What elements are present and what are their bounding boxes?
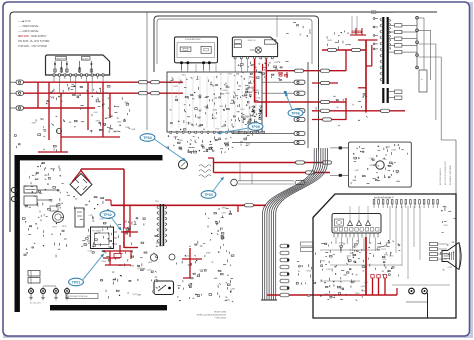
wire FBT to right 2 — [418, 29, 430, 31]
switching transistor Q801 — [179, 160, 188, 169]
svg-text:C860: C860 — [117, 122, 121, 124]
resistor R821 — [296, 161, 305, 164]
IC501 component fill — [214, 93, 215, 94]
relay RL801 — [154, 281, 174, 295]
red jack feed y83 — [312, 82, 338, 84]
IC501 internal grid — [171, 76, 173, 128]
svg-text:L801: L801 — [182, 74, 186, 76]
CRT board left cluster — [305, 282, 307, 284]
CRT funnel — [442, 243, 461, 270]
svg-text:L212: L212 — [186, 255, 190, 257]
svg-text:R127: R127 — [52, 226, 56, 228]
svg-text:FBT TRANSFORMER UNIT: FBT TRANSFORMER UNIT — [372, 11, 395, 14]
red long 12V rail — [255, 101, 346, 103]
ejection label box — [66, 294, 98, 299]
IC401 pin stubs — [338, 147, 349, 149]
red rail lower jack — [312, 119, 346, 121]
FBT terminal bus — [416, 16, 418, 69]
board internal wire 3 — [320, 280, 360, 282]
svg-text:-·-·- VIDEO SIGNAL: -·-·- VIDEO SIGNAL — [18, 25, 39, 28]
resistor R314 — [323, 118, 332, 121]
svg-text:Q693: Q693 — [212, 110, 216, 112]
red gun stub B — [384, 278, 386, 295]
U301 detector symbol Q301 — [255, 47, 261, 53]
svg-text:Q191: Q191 — [77, 95, 81, 97]
cluster left red grid — [43, 129, 46, 131]
U301 pin row — [234, 57, 236, 59]
AC inlet plug — [11, 187, 16, 192]
svg-text:C746: C746 — [87, 251, 91, 253]
VIDEO IN jack J1 — [11, 81, 17, 83]
red branch v1 — [37, 82, 39, 108]
svg-text:D173: D173 — [197, 110, 201, 112]
transistor Q101 — [56, 128, 61, 133]
resistor R107 on audio bus — [139, 92, 148, 95]
svg-text:L376: L376 — [147, 269, 151, 271]
transistor Q805 — [169, 254, 175, 260]
red main smps rail — [111, 204, 266, 206]
wire IC501 to jack A — [262, 81, 294, 83]
RGB amp triangle G — [357, 221, 362, 226]
red trace bridge to B+ cap — [80, 169, 82, 171]
speaker bracket — [427, 293, 429, 318]
svg-text:TVM SUPL : 170V SYSTEM: TVM SUPL : 170V SYSTEM — [18, 46, 47, 48]
red rail end — [396, 288, 398, 295]
svg-text:R364: R364 — [35, 179, 39, 181]
FBT core bar 1 — [382, 17, 384, 84]
IC401 input wires — [330, 147, 338, 149]
jack link wire — [30, 271, 32, 284]
cluster far-left mid — [53, 145, 56, 147]
svg-text:L226: L226 — [382, 259, 386, 261]
SMPS transformer T801 core — [160, 204, 162, 246]
red trace audio-in bus — [24, 92, 184, 94]
connector CN803 — [295, 181, 305, 185]
svg-text:Q807: Q807 — [148, 262, 152, 264]
FBT rectifier ladder — [395, 24, 402, 27]
wire FBT to right 4 — [418, 56, 441, 58]
IC401 internals — [372, 159, 375, 161]
svg-text:C188: C188 — [274, 62, 278, 64]
svg-text:Q469: Q469 — [244, 133, 248, 135]
red bridge positive roof — [72, 171, 90, 183]
resistor R106 on video bus — [151, 81, 160, 84]
front AV connector block J101 outline — [46, 55, 110, 75]
svg-text:R552: R552 — [225, 93, 229, 95]
components below IC501 — [194, 152, 197, 153]
svg-text:MODEL 54NE: MODEL 54NE — [214, 312, 227, 314]
ceramic resonator X301 — [252, 106, 255, 116]
vertical stub b — [251, 173, 253, 185]
board edge connector strip — [280, 244, 289, 248]
svg-text:VIDEO / IF: VIDEO / IF — [248, 40, 256, 42]
transistor Q802 — [231, 179, 238, 186]
svg-text:L929: L929 — [339, 242, 343, 244]
focus divider block — [419, 70, 427, 92]
svg-text:RED SUPL : MAIN SUPPLY: RED SUPL : MAIN SUPPLY — [18, 35, 47, 38]
svg-text:R218: R218 — [307, 270, 311, 272]
FBT output terminals — [416, 16, 419, 19]
svg-text:C409: C409 — [355, 293, 359, 295]
svg-text:C356: C356 — [346, 256, 350, 258]
red trace from U301 pin 6 — [265, 59, 267, 117]
CRT board top pin header — [373, 200, 375, 205]
board right cluster — [442, 231, 444, 233]
IC501 bottom pin row — [170, 131, 172, 133]
resistor R309 on 9V rail — [295, 69, 304, 72]
PSU below-bridge cluster — [86, 204, 88, 206]
isolation bar horizontal (hot/cold barrier) — [17, 155, 163, 160]
CRT board outline — [313, 194, 456, 318]
vertical stub a — [239, 163, 241, 181]
wire AC to bridge — [37, 189, 58, 191]
svg-text:C855: C855 — [244, 116, 248, 118]
PSU primary cluster — [39, 165, 41, 167]
mounting bracket boxes — [28, 271, 40, 277]
svg-text:Q573: Q573 — [352, 247, 356, 249]
IC901 pins — [333, 233, 335, 238]
svg-text:Q978: Q978 — [173, 136, 177, 138]
red standby net h1 — [103, 250, 132, 252]
svg-text:D631: D631 — [174, 86, 178, 88]
red CRT rail horizontal — [267, 294, 397, 296]
red gun stub G — [378, 278, 380, 295]
red CRT vertical main — [365, 237, 367, 295]
T801 windings — [157, 206, 159, 209]
CRT board interior cluster — [337, 286, 340, 288]
vertical deflection block IC401 outline — [349, 142, 412, 187]
U201 left amp cell — [180, 47, 191, 51]
svg-text:BF FOCUS SCREEN WHT: BF FOCUS SCREEN WHT — [445, 160, 447, 185]
speaker mount circles — [409, 288, 415, 294]
U201 output transistors — [180, 61, 183, 64]
svg-text:TP02: TP02 — [103, 213, 112, 217]
test point TP01 callout — [69, 278, 84, 286]
chassis ground jacks — [29, 289, 34, 294]
FBT primary taps — [375, 18, 378, 20]
red horizontal 9V rail — [266, 70, 346, 72]
connector block pin row — [53, 74, 55, 76]
inner schematic frame left edge — [9, 60, 11, 232]
svg-text:Q264: Q264 — [385, 147, 389, 149]
red branch v6 — [109, 93, 111, 118]
red branch v2 — [48, 82, 50, 140]
U201 inner frame — [177, 43, 214, 58]
svg-text:D806: D806 — [156, 242, 160, 244]
resistor R105 on video bus — [139, 81, 148, 84]
svg-text:——▶ P. UK: ——▶ P. UK — [18, 20, 31, 23]
svg-text:D878: D878 — [369, 165, 373, 167]
red standby stub — [183, 277, 190, 279]
main board outline outer — [154, 16, 319, 150]
svg-text:TP05: TP05 — [251, 125, 260, 129]
red bottom run — [38, 151, 68, 153]
svg-text:TYPE CD2N2: TYPE CD2N2 — [214, 318, 226, 320]
red trace audio-R bus — [24, 107, 96, 109]
red short branch — [366, 65, 372, 67]
main board outline inner — [157, 19, 312, 64]
RGB amp triangle R — [348, 221, 353, 226]
svg-text:R449: R449 — [321, 261, 325, 263]
red branch v5 — [102, 82, 104, 137]
transistor Q804 — [150, 254, 157, 261]
cluster left of IC501 — [109, 127, 112, 129]
red B+ rail 115V — [322, 49, 366, 51]
wire to jack y142 — [232, 142, 294, 144]
resistor R315 — [321, 81, 330, 84]
svg-text:C723: C723 — [215, 129, 219, 131]
secondary cluster — [154, 280, 157, 282]
red manifold vertical B — [345, 98, 347, 120]
svg-text:L692: L692 — [251, 77, 255, 79]
red secondary rail 2 — [214, 172, 331, 174]
svg-text:R978: R978 — [222, 207, 226, 209]
component cluster IF area — [247, 87, 248, 88]
CRT drive IC901 outline — [332, 214, 381, 234]
vertical output transistor Q401 — [376, 161, 384, 169]
svg-text:Q466: Q466 — [105, 118, 109, 120]
red component cluster near U301 — [278, 72, 283, 74]
vertical bus wire left of board — [146, 13, 148, 131]
svg-text:Q965: Q965 — [96, 101, 100, 103]
wires IC901 pins down — [335, 238, 337, 245]
red drive rail right — [213, 158, 215, 173]
connector block internal contacts — [54, 61, 56, 73]
svg-text:D302: D302 — [109, 129, 113, 131]
main filter cap C805 — [75, 208, 84, 227]
audio output block U201 outline — [175, 37, 218, 63]
red branch v4 — [87, 82, 89, 130]
red gun stub R — [372, 278, 374, 295]
red branch v130 — [129, 205, 131, 237]
transistor Q803 — [231, 178, 233, 180]
svg-text:D450: D450 — [227, 74, 231, 76]
component cluster below U301 — [263, 69, 265, 71]
red B+ cluster parts — [352, 31, 355, 33]
test point TP02 callout — [100, 211, 115, 219]
svg-text:Q257: Q257 — [364, 282, 368, 284]
red standby vertical — [189, 248, 191, 278]
red manifold vertical A — [345, 50, 347, 71]
board internal wire 4 — [392, 284, 450, 286]
resistor R311 on 12V rail — [321, 100, 330, 103]
U301 tuner cell — [234, 40, 241, 44]
red flyback primary vertical — [365, 40, 367, 113]
cluster above B+ area — [326, 36, 328, 38]
wire to jack y133 — [232, 133, 294, 135]
wire IC501 to jack B — [262, 92, 294, 94]
wire FBT to right 1 — [418, 17, 424, 19]
CRT socket pins — [430, 242, 438, 245]
svg-text:T801: T801 — [155, 201, 159, 203]
SMPS regulator IC801 (STR) — [91, 227, 114, 249]
svg-text:L318: L318 — [383, 159, 387, 161]
resistor R802 B+ — [352, 48, 361, 51]
svg-text:R643: R643 — [327, 40, 331, 42]
driver transformer T802 — [199, 165, 211, 178]
svg-text:D410: D410 — [102, 261, 106, 263]
red stub smps left — [110, 200, 112, 205]
cluster below input jacks — [68, 88, 70, 91]
svg-text:Q402: Q402 — [361, 286, 365, 288]
AV out jack column — [294, 80, 305, 84]
test point TP04 callout — [140, 134, 155, 142]
video IF block U301 outline — [232, 37, 277, 57]
svg-text:L510: L510 — [58, 96, 62, 98]
svg-text:R154: R154 — [62, 226, 66, 228]
inner schematic frame top edge — [10, 12, 437, 60]
red standby net v3 — [130, 251, 132, 259]
wire pair above B+ area — [351, 16, 353, 34]
wire FBT to right 3 — [418, 43, 436, 45]
svg-text:R204: R204 — [246, 143, 250, 145]
U301 delay line cell — [264, 40, 276, 44]
degauss posistor TH801 — [53, 212, 64, 223]
ceramic resonator X302 — [259, 106, 262, 116]
IC901 bottom cells — [334, 228, 337, 232]
svg-text:L502: L502 — [93, 112, 97, 114]
red mid run — [61, 136, 120, 138]
svg-text:D234: D234 — [212, 118, 216, 120]
labels left of jacks — [246, 144, 249, 146]
svg-text:D517: D517 — [240, 109, 244, 111]
svg-text:WRMOL-2023N-D023084-2656CH: WRMOL-2023N-D023084-2656CH — [197, 315, 227, 317]
svg-text:D987: D987 — [32, 122, 36, 124]
CRT harness wire bundle — [263, 148, 315, 300]
svg-text:TP04: TP04 — [143, 136, 152, 140]
svg-text:Q260: Q260 — [389, 256, 393, 258]
resistor R108 on audio bus — [151, 92, 160, 95]
svg-text:D161: D161 — [326, 269, 330, 271]
svg-text:+: + — [421, 77, 423, 81]
svg-text:Q572: Q572 — [132, 294, 136, 296]
connector labels — [301, 242, 314, 246]
line filter L801 — [24, 196, 37, 205]
red standby branch — [182, 258, 202, 260]
svg-text:R764: R764 — [384, 254, 388, 256]
resistor R313 — [381, 109, 390, 112]
resistor R801 B+ — [328, 48, 337, 51]
svg-text:D388: D388 — [130, 265, 134, 267]
svg-text:TP01: TP01 — [72, 280, 81, 284]
svg-text:Q264: Q264 — [159, 246, 163, 248]
board vertical traces — [389, 206, 391, 240]
svg-text:R480: R480 — [114, 131, 118, 133]
FBT core bar 2b — [387, 88, 389, 103]
svg-text:L420: L420 — [250, 87, 254, 89]
AC fuse box F801 — [24, 186, 37, 193]
red rail end stub — [124, 247, 138, 249]
svg-text:Q201: Q201 — [225, 86, 229, 88]
jack panel edge line — [307, 62, 309, 148]
svg-text:AS VIDEO ADB-IN: AS VIDEO ADB-IN — [439, 168, 442, 185]
AUDIO-R IN jack J3 — [11, 107, 17, 109]
red secondary vertical — [237, 205, 239, 212]
svg-text:D549: D549 — [392, 150, 396, 152]
red cluster b1 — [121, 231, 138, 233]
bridge rectifier D801 diamond — [70, 174, 92, 196]
red standby net h3 — [105, 264, 131, 266]
svg-text:(FOR EJECTION) JHG: (FOR EJECTION) JHG — [68, 296, 88, 298]
resistor R822 — [323, 161, 332, 164]
red branch to FBT winding — [358, 39, 378, 41]
RGB amp triangle B — [366, 221, 371, 226]
svg-text:Q986: Q986 — [206, 253, 210, 255]
connector block label box HEADPHONE — [56, 57, 67, 61]
red standby net v2 — [119, 245, 121, 258]
svg-text:L356: L356 — [219, 106, 223, 108]
FBT secondary winding — [389, 19, 391, 21]
red standby net h2 — [103, 257, 120, 259]
svg-text:L148: L148 — [131, 129, 135, 131]
degauss coil connector — [50, 206, 58, 211]
resistor R312 — [321, 109, 330, 112]
svg-text:C155: C155 — [88, 215, 92, 217]
centre low cluster — [208, 218, 210, 219]
svg-text:D672: D672 — [381, 249, 385, 251]
test point TP03 callout — [201, 191, 216, 199]
red secondary rail 1 — [214, 162, 331, 164]
IC901 bias cell — [335, 219, 344, 226]
svg-text:AC 220-240V: AC 220-240V — [30, 302, 42, 305]
cluster top right of U301 — [299, 34, 301, 36]
CRT board mid cluster — [368, 247, 369, 248]
svg-text:L818: L818 — [250, 107, 254, 109]
red B+ primary drop — [123, 169, 125, 248]
isolation bar bottom — [50, 305, 167, 310]
svg-text:L315: L315 — [256, 97, 260, 99]
svg-text:R592: R592 — [50, 168, 54, 170]
svg-text:C634: C634 — [179, 140, 183, 142]
CRT gun grid — [449, 252, 451, 260]
svg-text:C548: C548 — [386, 242, 390, 244]
svg-text:JTE SUPL : B+ 115V SYSTEM: JTE SUPL : B+ 115V SYSTEM — [18, 41, 49, 43]
svg-text:C376: C376 — [221, 212, 225, 214]
svg-text:TP06: TP06 — [291, 111, 300, 115]
cluster manifold junctions — [342, 99, 344, 101]
red stub down centre — [262, 64, 264, 71]
sound area cluster — [204, 255, 206, 257]
test point TP06 marker — [284, 91, 287, 94]
red heater rail — [358, 87, 366, 89]
svg-text:C473: C473 — [447, 267, 451, 269]
resistor R310 on 9V rail — [321, 69, 330, 72]
svg-text:Q839: Q839 — [238, 131, 242, 133]
svg-text:L968: L968 — [210, 85, 214, 87]
svg-text:IPC D4M4: IPC D4M4 — [93, 231, 101, 233]
red trace video-in bus — [24, 81, 184, 83]
wires audio block to IC501 — [181, 64, 183, 72]
resistor R823 — [306, 171, 315, 174]
jungle IC block IC501 outline — [167, 72, 262, 132]
connector block label box AV JACK — [82, 57, 91, 61]
bridge diode marks — [75, 179, 79, 183]
svg-text:D110: D110 — [100, 218, 104, 220]
wire right edge down — [441, 139, 456, 141]
svg-text:TP03: TP03 — [204, 193, 213, 197]
wires connector block pins to bus — [53, 76, 55, 82]
red rail to deflection — [312, 110, 405, 112]
svg-text:L425: L425 — [443, 225, 447, 227]
wire frame to U301 — [276, 16, 278, 37]
red standby net v1 — [109, 251, 111, 265]
wires U301 pins down — [234, 59, 236, 72]
isolation bar vertical left — [15, 155, 20, 312]
svg-text:C651: C651 — [248, 92, 252, 94]
AUDIO-L IN jack J2 — [11, 92, 17, 94]
svg-text:BF IMAGE CAP WIRE: BF IMAGE CAP WIRE — [449, 164, 452, 185]
test point TP06 callout — [288, 109, 303, 117]
